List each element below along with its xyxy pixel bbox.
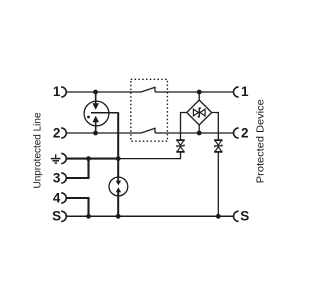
suppressor bowtie inside diamond: right triangle (200, 109, 205, 116)
terminal S socket arc (left) (61, 211, 66, 221)
G2 top lead inside (117, 177, 119, 181)
suppressor bowtie inside diamond: left triangle (193, 109, 198, 116)
bridge top lead (198, 92, 200, 100)
G1 bottom lead (95, 122, 97, 133)
terminal 2 socket arc (right) (234, 128, 239, 138)
wire line2 left segment (66, 132, 141, 134)
TVS T1 upper triangle (177, 140, 184, 145)
disconnect switch F1 diagonal (141, 87, 155, 92)
diode bridge diamond (187, 100, 212, 125)
junction dot S line / G2 (116, 214, 121, 219)
terminal 1 socket arc (left) (61, 87, 66, 97)
G2 bottom lead (117, 192, 119, 216)
TVS T2 lower triangle (215, 147, 222, 152)
wire terminal 4 (66, 198, 88, 216)
svg-text:2: 2 (53, 126, 61, 141)
svg-text:3: 3 (53, 171, 61, 186)
TVS T1 middle bar zener (177, 145, 184, 148)
junction dot S line / TVS T2 (216, 214, 221, 219)
terminal 3 socket arc (left) (61, 173, 66, 183)
ground terminal earth symbol (51, 154, 61, 163)
terminal 2 socket arc (left) (61, 128, 66, 138)
TVS diode T1 top bar (177, 140, 184, 141)
svg-text:4: 4 (53, 191, 61, 206)
terminal 4 socket arc (left) (61, 193, 66, 203)
TVS T2 middle bar zener (215, 145, 222, 148)
dashed enclosure box (131, 79, 168, 141)
svg-text:1: 1 (53, 84, 61, 99)
TVS T2 bottom bar (215, 151, 222, 152)
wire diamond left arm to TVS T1 (181, 113, 187, 140)
wire line1 right segment (155, 91, 234, 93)
TVS T2 upper triangle (215, 140, 222, 145)
G1 bottom arrow (92, 116, 99, 123)
junction dot G1 top (93, 90, 98, 95)
wire S line (66, 215, 233, 217)
G1 gas dot (87, 116, 90, 119)
gas discharge tube G1 circle (84, 101, 109, 126)
TVS T1 bottom bar (177, 151, 184, 152)
gas discharge tube G2 circle (109, 177, 128, 196)
junction dot bridge top (197, 90, 202, 95)
disconnect switch F2 diagonal (141, 128, 155, 133)
svg-text:2: 2 (241, 126, 249, 141)
junction dot bridge bottom (197, 131, 202, 136)
svg-text:S: S (240, 209, 249, 224)
TVS T1 lower triangle (177, 147, 184, 152)
svg-text:Unprotected Line: Unprotected Line (33, 112, 44, 188)
ground bus vertical to gas discharge tube G2 (117, 159, 119, 178)
bridge bottom lead (198, 125, 200, 133)
wire diamond right arm to TVS T2 (212, 113, 219, 140)
G1 top lead (95, 92, 97, 104)
G2 bottom arrow (116, 187, 121, 192)
wire line2 right segment (155, 132, 234, 134)
terminal S socket arc (right) (234, 211, 239, 221)
junction dot S line / terminal 4 (86, 214, 91, 219)
junction dot G1 bottom (93, 131, 98, 136)
svg-text:1: 1 (241, 84, 249, 99)
terminal 1 socket arc (right) (234, 87, 239, 97)
TVS diode T2 top bar (215, 140, 222, 141)
G2 top arrow (116, 181, 121, 186)
G1 top arrow (92, 103, 99, 110)
ground terminal socket arc (left) (61, 153, 66, 163)
wire TVS T2 to S line (217, 152, 219, 216)
svg-text:Protected Device: Protected Device (255, 99, 267, 183)
wire ground bus to TVS T1 (118, 152, 180, 158)
wire terminal 3 (66, 159, 88, 178)
suppressor bowtie middle bar with zener wings (198, 108, 202, 117)
wire ground bus thick (66, 158, 118, 160)
G1 middle electrode wire to ground bus (91, 112, 118, 114)
junction dot ground bus / terminal 3 (86, 156, 91, 161)
svg-text:S: S (52, 209, 61, 224)
junction dot ground bus / G2 branch (116, 156, 121, 161)
wire line1 left segment (66, 91, 141, 93)
